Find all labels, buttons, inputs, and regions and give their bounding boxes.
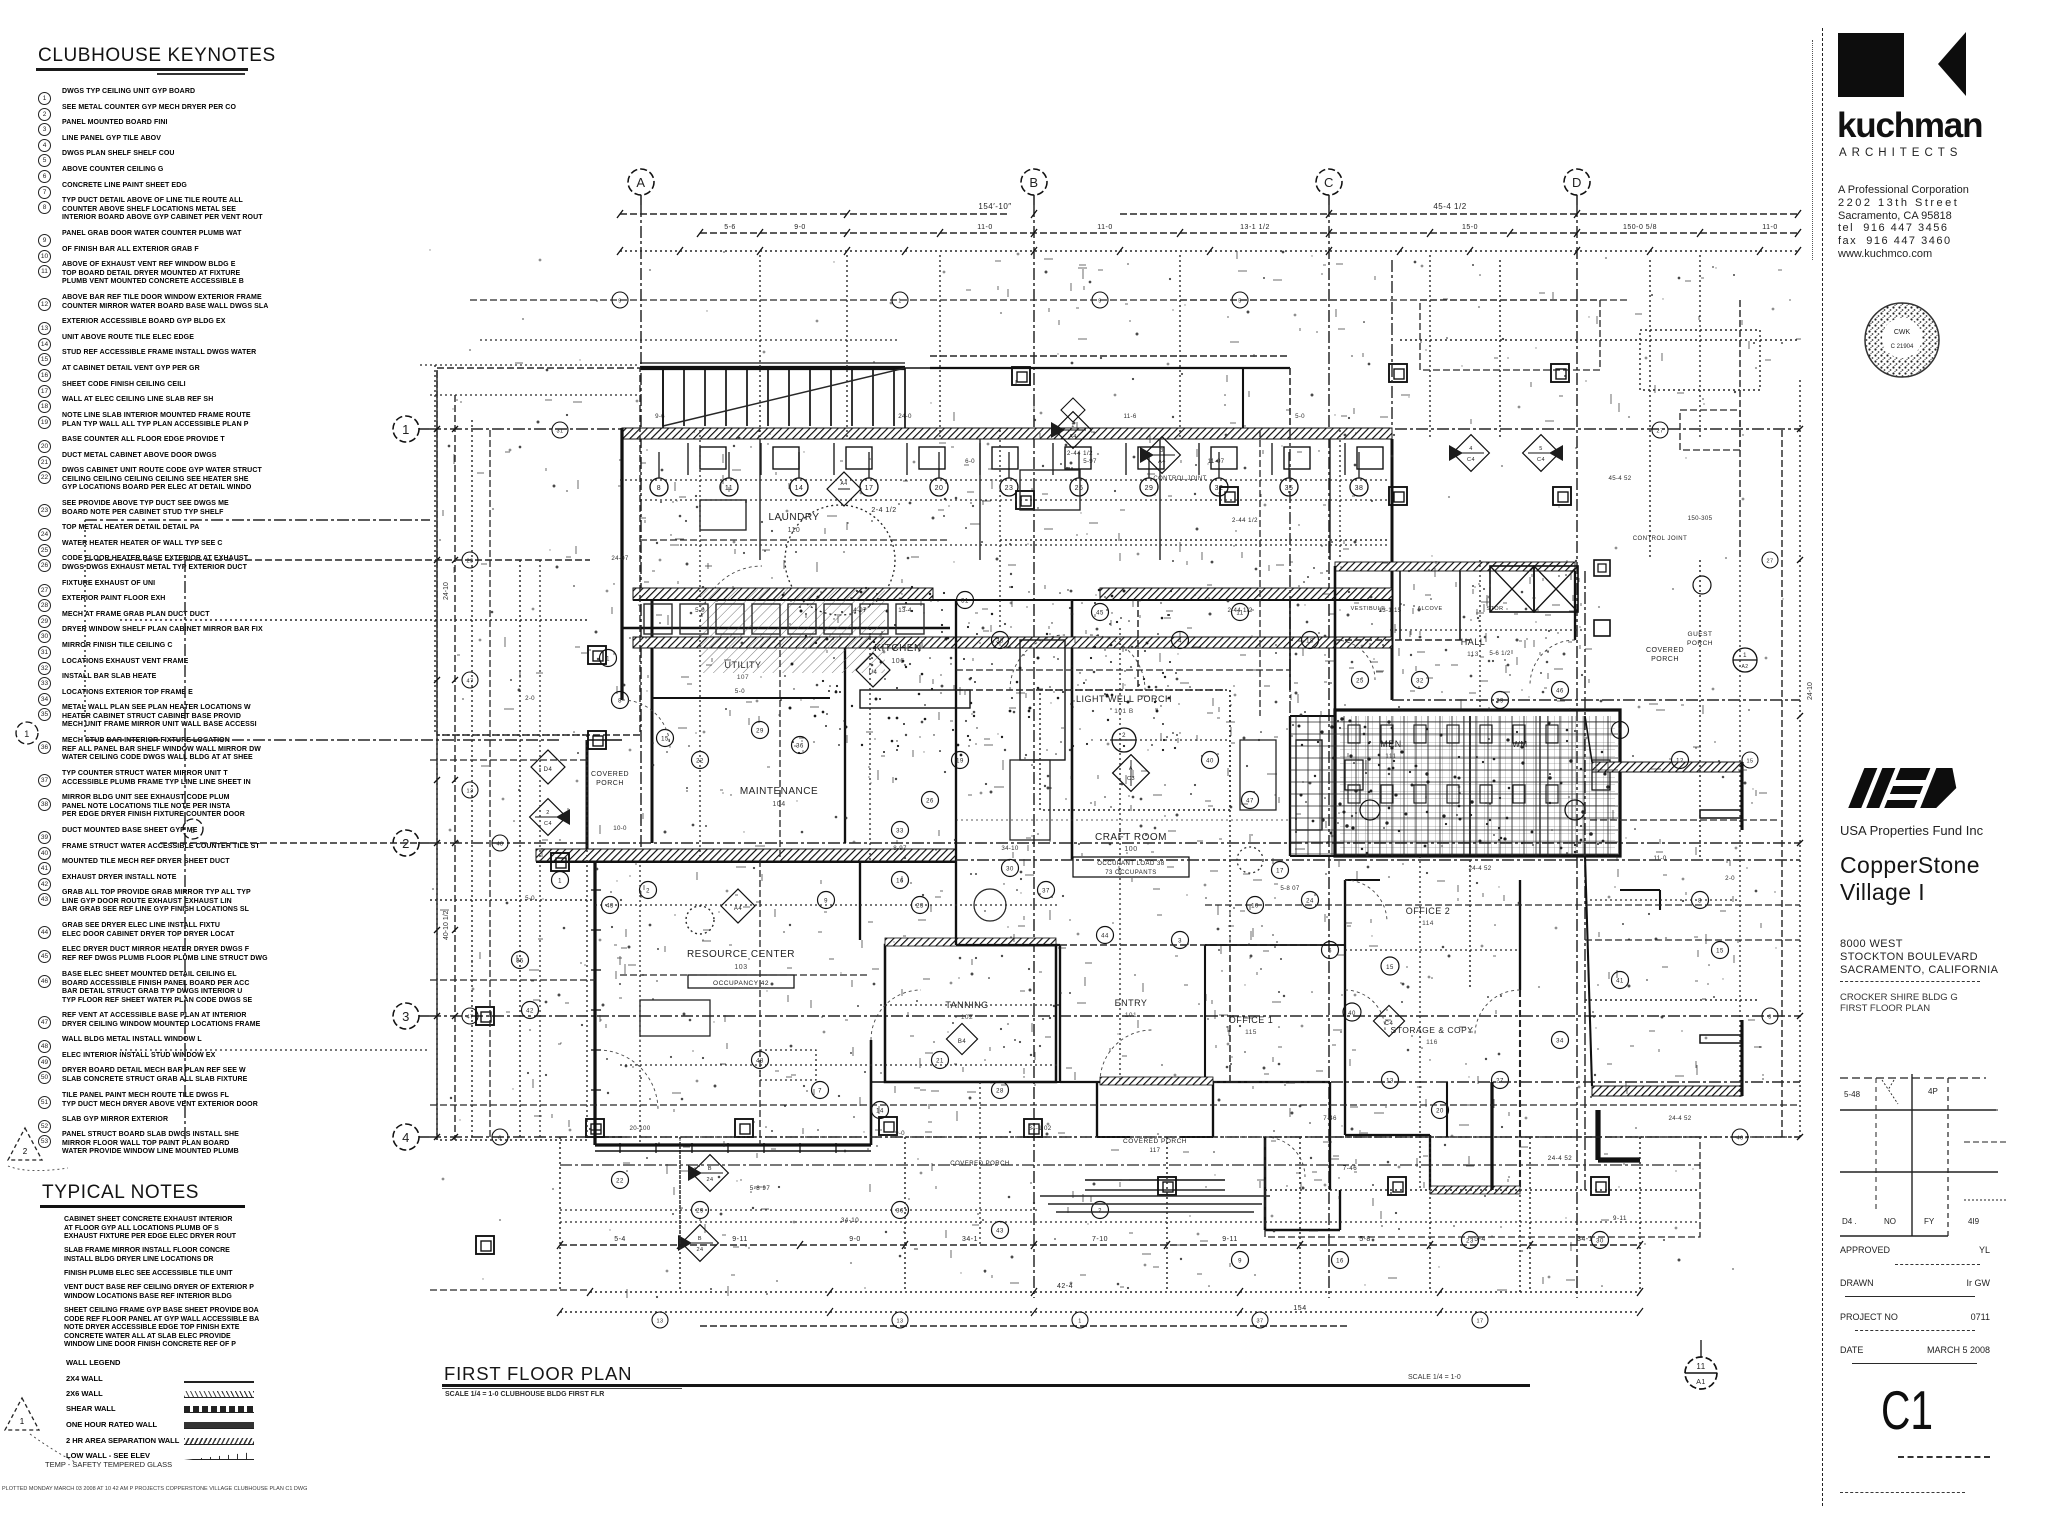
svg-text:101 B: 101 B [1114,708,1134,715]
resource east wall [870,1040,873,1145]
svg-text:20: 20 [935,485,944,492]
maintenance diamond [531,750,565,784]
office2 keynote circles [1343,957,1399,1021]
keynote 12 text [62,294,304,311]
svg-text:5-8 07: 5-8 07 [1280,885,1300,892]
laundry door arc [700,566,762,628]
scattered dimension texts [525,413,1735,1137]
keynote 42 bubble [38,873,51,891]
svg-text:CWK: CWK [1894,329,1911,336]
grid column D bubble and line [1564,169,1590,1298]
svg-text:B: B [1029,175,1038,190]
svg-text:107: 107 [737,674,749,681]
hall north wall hatch [1335,562,1575,571]
revision triangle upper [0,1120,90,1180]
office1 outline [1205,1081,1330,1083]
svg-text:14: 14 [876,1109,884,1115]
svg-text:45-4 52: 45-4 52 [1608,475,1631,482]
vertical reference dotted lines top [760,255,1700,440]
keynote 16 bubble [38,364,51,382]
right dimension lines [1782,380,1814,1140]
keynote 40 bubble [38,842,51,860]
keynotes title underline [36,68,248,71]
keynote 12 bubble [38,293,51,311]
keynote 45 bubble [38,945,51,963]
svg-text:13: 13 [466,789,473,795]
svg-text:2-44 1/2: 2-44 1/2 [1227,607,1252,614]
svg-text:13-1 1/2: 13-1 1/2 [1240,224,1270,231]
wall legend rows [66,1358,306,1367]
entry door arcs [1100,1030,1152,1082]
svg-text:A1: A1 [1696,1379,1706,1386]
light well circle [1112,728,1136,752]
svg-text:23: 23 [466,559,473,565]
svg-text:5-4: 5-4 [614,1236,626,1243]
architects word [1839,147,1962,159]
keynote 14 text [62,334,304,343]
svg-text:111: 111 [1385,753,1396,760]
scattered keynote circles [512,592,1729,1269]
keynote 51 text [62,1092,304,1109]
porch bench [1620,890,1660,910]
keynote 52 text [62,1116,304,1125]
interior dashed lines [956,859,1800,861]
svg-text:26: 26 [926,799,934,805]
window sill marks west [591,889,601,891]
keynote 10 bubble [38,245,51,263]
utility hatch patch [700,588,885,673]
keynote 26 text [62,555,304,572]
office door arcs 2 [1345,880,1387,922]
kitchen diamond U4 [856,653,890,687]
keynote 50 text [62,1067,304,1084]
laundry west wall [620,428,623,700]
keynote 39 bubble [38,826,51,844]
svg-text:D: D [1572,175,1582,190]
svg-text:34-1 02: 34-1 02 [1028,1125,1051,1132]
column marker (1600,1186) [1591,1177,1609,1195]
kitchen counters [860,640,1065,760]
svg-text:48: 48 [496,842,503,848]
tangle lines round 3 [430,300,1800,1245]
svg-text:5: 5 [1618,729,1622,735]
laundry diamond marker [827,472,861,506]
svg-text:1: 1 [402,422,410,437]
svg-text:32: 32 [1416,679,1424,685]
keynote 44 text [62,922,304,939]
column marker (1562,496) [1553,487,1571,505]
svg-text:100: 100 [1124,846,1137,853]
sheet title FIRST FLOOR PLAN [444,1363,632,1385]
svg-text:C 21904: C 21904 [1891,344,1914,350]
column marker (1398,373) [1389,364,1407,382]
hall interior walls [1399,571,1401,640]
top dimension line 2 [697,224,1801,237]
utility closet cubbies [644,604,924,634]
svg-text:114: 114 [1422,920,1434,927]
room label WOMEN [1512,740,1527,749]
keynote 11 bubble [38,260,51,278]
svg-text:1: 1 [1078,1319,1082,1325]
roof overhang dashed top right [1391,260,1393,428]
svg-text:11-0: 11-0 [1653,855,1666,862]
svg-text:8: 8 [618,699,622,705]
upper right extra rects [1420,300,1600,370]
svg-text:36: 36 [796,744,804,750]
keynote 32 text [62,658,304,667]
south-east zigzag wall [1490,1082,1493,1190]
svg-text:24: 24 [706,1177,713,1183]
keynote 17 text [62,381,304,390]
column marker (1398,496) [1389,487,1407,505]
svg-text:B: B [708,1166,712,1172]
keynote 8 text [62,197,304,223]
room label RESOURCE CENTER [687,949,795,988]
svg-text:A4: A4 [840,481,847,487]
kitchen corridor speckle [780,586,1180,757]
svg-text:CONTROL JOINT: CONTROL JOINT [1153,476,1206,482]
svg-text:5-6 1/2: 5-6 1/2 [1489,650,1511,657]
keynote 27 text [62,580,304,589]
top dimension line 1 [617,202,1801,218]
column marker (1025,500) [1016,491,1034,509]
porch right top wall [1592,762,1742,772]
resource double south wall [595,1150,871,1152]
section marker top A [1061,398,1085,422]
keynote 21 text [62,452,304,461]
svg-text:13-4: 13-4 [898,607,912,614]
resource west wall [593,862,596,1145]
svg-text:C4: C4 [1385,1021,1394,1027]
keynote 33 bubble [38,672,51,690]
svg-text:104: 104 [772,801,785,808]
svg-text:12: 12 [1676,759,1684,765]
keynote 9 bubble [38,229,51,247]
svg-text:5-0: 5-0 [735,689,745,695]
svg-text:2: 2 [646,889,650,895]
kitchen east wall [1071,600,1074,860]
bottom entry L walls [1265,1137,1340,1230]
svg-text:6-0: 6-0 [965,458,975,465]
grid row 4 bubble and line [393,1124,1800,1150]
svg-text:C4: C4 [1537,457,1545,463]
title block left border (dashed) [1822,28,1823,1506]
USA properties logo [1838,764,1978,812]
svg-text:9-0: 9-0 [794,224,806,231]
restroom fixtures [1345,760,1610,820]
site boundary dashed lines left [16,520,590,1140]
room label KITCHEN [874,643,921,665]
room label LIGHT WELL PORCH [1076,694,1172,715]
svg-text:D4: D4 [544,767,553,773]
svg-text:34-1: 34-1 [962,1236,978,1243]
svg-text:2: 2 [1122,733,1126,739]
project name [1840,852,1980,906]
grid column A bubble and line [628,169,654,860]
resource south wall [595,1143,871,1146]
svg-text:7-46: 7-46 [1323,1115,1337,1122]
svg-text:40: 40 [1348,1011,1356,1017]
grid row 3 bubble and line [393,1003,1800,1029]
tempered glass note [45,1460,172,1469]
wall hatched utility north [633,588,933,600]
keynote 2 text [62,104,304,113]
architect stamp [1862,300,1942,380]
porch right east walls [1700,762,1742,1096]
footer section circle [1685,1340,1717,1389]
keynote 15 bubble [38,348,51,366]
svg-text:2-0: 2-0 [1725,875,1735,882]
laundry circle detail [785,505,895,615]
section marker C top [1449,435,1489,472]
keynote 20 bubble [38,435,51,453]
svg-text:29: 29 [756,729,764,735]
svg-text:8-97: 8-97 [893,845,907,852]
keynote 22 bubble [38,466,51,484]
svg-text:RESOURCE CENTER: RESOURCE CENTER [687,949,795,960]
svg-text:8: 8 [657,485,661,492]
keynote 4 text [62,135,304,144]
column marker (1560,373) [1551,364,1569,382]
svg-text:115: 115 [1245,1029,1257,1036]
keynote 28 text [62,595,304,604]
svg-text:5-0: 5-0 [525,895,535,902]
svg-text:7-10: 7-10 [1092,1236,1108,1243]
keynote 48 bubble [38,1035,51,1053]
resource north-east wall [859,862,861,940]
laundry interior partitions [759,439,761,560]
bottom dimension line 1 [557,1236,1643,1249]
kuchman logo triangle [1930,30,1970,100]
svg-text:4P: 4P [1928,1087,1938,1096]
svg-text:A4: A4 [734,906,743,912]
column marker (888,1126) [879,1117,897,1135]
keynote 7 bubble [38,181,51,199]
svg-text:154: 154 [1293,1305,1306,1312]
svg-text:27: 27 [1766,559,1773,565]
keynote 28 bubble [38,594,51,612]
svg-text:73 OCCUPANTS: 73 OCCUPANTS [1105,870,1157,876]
svg-text:COVERED: COVERED [591,771,629,778]
restroom tile overlay [1290,716,1618,856]
approval rows [1840,1245,1990,1255]
keynote 37 bubble [38,769,51,787]
keynote 42 text [62,874,304,883]
bottom entry steps [1040,1196,1270,1212]
room label TANNING [945,1000,988,1021]
keynote 35 text [62,704,304,730]
grid row 2 bubble and line [393,830,1800,856]
svg-text:101: 101 [1125,1012,1137,1019]
svg-text:C4: C4 [1467,457,1475,463]
svg-text:23: 23 [1466,1239,1474,1245]
bottom right porch dashes [1265,1137,1700,1237]
svg-text:40: 40 [1206,759,1214,765]
typical notes underline [40,1205,245,1208]
restroom stall fixtures [1348,725,1558,803]
hall outline [1334,566,1337,710]
keynote 23 bubble [38,499,51,517]
hall tiny labels [1351,606,1504,612]
tangle lines 1 [1180,299,1630,301]
svg-text:STORAGE & COPY: STORAGE & COPY [1391,1025,1474,1035]
laundry east wall [1391,439,1394,700]
svg-text:24-10: 24-10 [443,582,450,600]
svg-text:9-11: 9-11 [1222,1236,1238,1243]
window sill marks south [619,1143,621,1153]
section marker left covered [530,799,570,836]
svg-text:2-44 1/2: 2-44 1/2 [1232,518,1258,524]
keynote 36 bubble [38,736,51,754]
revision triangle lower [0,1390,110,1470]
west porch columns [588,731,606,749]
svg-text:A2: A2 [1741,664,1748,670]
column marker (1229,496) [1220,487,1238,505]
svg-text:40-10 1/2: 40-10 1/2 [443,910,450,940]
keynote 3 bubble [38,118,51,136]
keynote 11 text [62,261,304,287]
svg-text:17: 17 [865,485,874,492]
keynote 13 text [62,318,304,327]
room label OFFICE 1 [1229,1015,1274,1036]
restroom divider [1469,716,1471,856]
keynote 29 bubble [38,610,51,628]
svg-text:COVERED PORCH: COVERED PORCH [1123,1138,1187,1145]
craft south wall [956,944,1060,946]
svg-text:5-8 97: 5-8 97 [750,1185,771,1192]
column marker (595,1128) [586,1119,604,1137]
keynote 46 text [62,971,304,1005]
svg-text:C4: C4 [544,821,552,827]
svg-text:11-0: 11-0 [977,224,993,231]
keynote 6 text [62,166,304,175]
svg-text:13: 13 [656,1319,663,1325]
svg-text:1: 1 [606,657,610,663]
porch right bottom wall [1592,1086,1742,1096]
keynote 38 bubble [38,793,51,811]
svg-text:4: 4 [402,1130,410,1145]
left column: clubhouse keynotes title [38,45,276,67]
restroom west lav wall [1289,716,1291,856]
grid row 1 bubble and line [393,416,1800,442]
keynote 14 bubble [38,333,51,351]
room label CRAFT ROOM [1073,832,1189,877]
svg-text:C: C [1324,175,1334,190]
svg-text:103: 103 [734,964,747,971]
svg-text:24-4 52: 24-4 52 [1468,865,1491,872]
svg-text:25: 25 [1356,679,1364,685]
svg-text:24: 24 [696,1247,703,1253]
keynote 19 text [62,412,304,429]
more circles edges [462,552,478,568]
svg-text:7-46: 7-46 [1343,1165,1357,1172]
svg-text:3: 3 [1768,1015,1772,1021]
svg-text:5-0: 5-0 [1295,413,1305,420]
svg-text:30: 30 [1006,867,1014,873]
svg-text:HALL: HALL [1461,637,1486,647]
resource door arc [598,1050,658,1110]
section marker top center [1051,412,1091,449]
svg-text:42: 42 [526,1009,534,1015]
keynote 48 text [62,1036,304,1045]
extra h chains bottom [560,1311,1640,1313]
keynote 6 bubble [38,165,51,183]
keynote 53 bubble [38,1130,51,1148]
column marker (744,1128) [735,1119,753,1137]
svg-text:7: 7 [818,1089,822,1095]
roof overhang dashed left [437,368,640,735]
maintenance west wall [586,740,589,862]
storage south hatch [1430,1186,1520,1194]
svg-text:21: 21 [936,1059,944,1065]
svg-text:24-4 52: 24-4 52 [1548,1155,1573,1162]
craft diamond [1113,755,1150,792]
keynote 47 text [62,1012,304,1029]
room label MEN [1380,739,1402,760]
column thick L [1598,1110,1640,1160]
svg-text:B4: B4 [958,1039,967,1045]
svg-text:4I9: 4I9 [1968,1217,1980,1226]
tangle vertical dotted lines [520,560,1700,1292]
keynote 41 bubble [38,857,51,875]
room label LAUNDRY [768,512,819,534]
keynote 22 text [62,467,304,493]
svg-text:31: 31 [961,599,969,605]
room label STORAGE COPY [1391,1025,1474,1046]
restroom outline [1335,710,1620,856]
svg-text:3: 3 [1178,939,1182,945]
svg-text:24: 24 [1306,899,1314,905]
keynote 16 text [62,365,304,374]
svg-text:24-10: 24-10 [1807,682,1814,700]
svg-text:33: 33 [896,829,904,835]
svg-text:4: 4 [1469,446,1473,452]
svg-text:16: 16 [896,879,904,885]
svg-text:44: 44 [1101,934,1109,940]
keynote 49 bubble [38,1051,51,1069]
svg-text:43: 43 [996,1229,1004,1235]
column marker (1397,1186) [1388,1177,1406,1195]
svg-text:14: 14 [795,485,804,492]
svg-text:28: 28 [996,1089,1004,1095]
right detail circles [1693,576,1757,672]
room label OFFICE 2 [1406,906,1451,927]
tanning outline [885,945,1056,1082]
svg-text:47: 47 [466,679,473,685]
svg-text:46: 46 [1736,1136,1743,1142]
wall hatched kitchen north [1100,588,1392,600]
svg-text:D4 .: D4 . [1842,1217,1857,1226]
storage walls [1344,990,1346,1135]
bottom porch walls [1096,1082,1098,1137]
svg-text:MAINTENANCE: MAINTENANCE [740,786,818,797]
bottom porch label [1123,1138,1187,1154]
svg-text:4: 4 [1178,639,1182,645]
svg-text:37: 37 [1042,889,1050,895]
craft north opening wall [956,689,1225,691]
bottom dimension line 2 [587,1283,1643,1312]
svg-text:2-0: 2-0 [525,695,535,702]
svg-text:29: 29 [1145,485,1154,492]
section marker bottom2 [678,1225,718,1262]
keynote 1 text [62,88,304,97]
light well rect [1040,690,1230,810]
room label HALL [1461,637,1486,658]
keynote 31 text [62,642,304,651]
keynote 30 bubble [38,625,51,643]
keynote 36 text [62,737,304,763]
svg-text:5: 5 [1539,446,1543,452]
